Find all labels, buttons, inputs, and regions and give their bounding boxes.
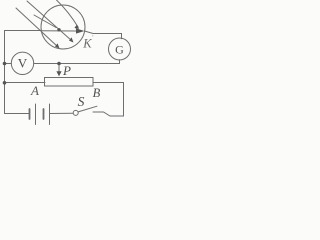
- cathode arrowhead K: [76, 28, 85, 33]
- battery cell 1 long plate: [35, 104, 37, 125]
- wire rheostat B to right rail: [93, 82, 124, 84]
- anode dot: [57, 28, 60, 31]
- wire tube to galvanometer: [85, 31, 122, 39]
- light ray 4: [34, 15, 56, 28]
- ray 3 arrowhead into electrode: [74, 25, 79, 29]
- svg-text:P: P: [62, 63, 71, 78]
- anode lead inside tube: [41, 30, 77, 32]
- switch pivot circle: [73, 110, 78, 115]
- junction dot left rail / rheostat: [3, 81, 7, 85]
- wire left rail to rheostat end A: [5, 82, 46, 84]
- svg-text:G: G: [115, 42, 124, 56]
- battery cell 2 long plate: [49, 104, 51, 125]
- light ray 1: [16, 8, 58, 47]
- light ray 3: [57, 0, 79, 27]
- ray 1 arrowhead: [55, 43, 60, 48]
- wire top-left (left rail to tube): [5, 30, 42, 32]
- rheostat body A-B: [45, 78, 94, 87]
- wire left rail to voltmeter: [5, 63, 12, 65]
- junction dot slider P: [57, 62, 61, 66]
- light ray 2: [27, 1, 72, 41]
- svg-text:B: B: [93, 86, 101, 100]
- battery cell 2 short plate: [43, 109, 45, 119]
- left rail wire: [4, 31, 6, 114]
- wire voltmeter to junction to G bottom: [34, 63, 120, 65]
- svg-text:V: V: [18, 56, 28, 71]
- voltmeter V circle: [11, 52, 33, 74]
- galvanometer G circle: [109, 38, 131, 60]
- slider arrowhead P: [56, 71, 61, 76]
- svg-text:K: K: [82, 37, 92, 51]
- battery cell 1 short plate: [29, 109, 31, 119]
- slider arrow shaft P: [58, 64, 60, 73]
- ray 2 arrowhead: [69, 37, 74, 42]
- junction dot left rail / V: [3, 62, 7, 66]
- right rail wire: [123, 83, 125, 117]
- bottom wire rail to battery: [5, 113, 30, 115]
- svg-text:A: A: [30, 83, 39, 98]
- phototube envelope: [41, 5, 85, 49]
- switch lever: [78, 106, 97, 112]
- wire battery to switch: [50, 112, 74, 114]
- svg-text:S: S: [78, 94, 85, 109]
- galvanometer bottom stub: [119, 60, 121, 64]
- svg-text:′: ′: [92, 34, 94, 42]
- wire right rail to switch contact: [93, 112, 124, 116]
